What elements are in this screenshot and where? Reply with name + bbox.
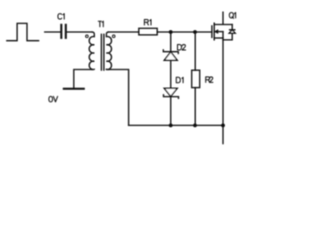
junction dot rail/Q1 source [221, 124, 225, 128]
capacitor C1 [61, 25, 66, 38]
MOSFET Q1 gate bar [211, 26, 213, 38]
junction dot rail/D1 [169, 124, 173, 128]
wire pulse to C1 [45, 31, 61, 33]
MOSFET Q1 channel bar [213, 23, 215, 40]
zener diode D1 [164, 88, 177, 96]
transformer T1 secondary winding [106, 32, 111, 70]
T1 secondary phase dot [112, 35, 115, 38]
Q1 source contact [214, 37, 223, 39]
label C1 [58, 14, 64, 20]
wire secondary bottom to rail [106, 70, 128, 126]
label D1 [176, 77, 183, 83]
label 0V [49, 96, 58, 102]
resistor R1 [139, 28, 157, 35]
junction dot rail/R2 [193, 124, 197, 128]
wire primary bottom to ground [74, 70, 93, 89]
Q1 source/body lead down to rail and below [222, 32, 224, 144]
ground bar 0V [64, 88, 84, 90]
junction dot R1/D2 [169, 30, 173, 34]
Q1 body contact with arrow [218, 31, 223, 33]
label D2 [178, 45, 186, 51]
Q1 drain contact and lead [214, 12, 232, 24]
Q1 body diode [230, 25, 235, 30]
label R1 [144, 20, 151, 26]
junction dot gate/R2 [193, 30, 197, 34]
transformer T1 primary winding [89, 32, 94, 70]
wire D1 to rail [170, 97, 172, 126]
label R2 [206, 77, 213, 83]
wire R2 to rail [194, 88, 196, 126]
transformer T1 core [101, 34, 104, 70]
wire junction to D2 [170, 32, 172, 52]
label T1 [98, 21, 103, 27]
bottom rail [129, 124, 223, 126]
wire gate junction to R2 [194, 32, 196, 70]
wire secondary top to R1 [108, 31, 138, 33]
label Q1 [229, 13, 235, 19]
zener diode D2 [163, 50, 178, 54]
resistor R2 [192, 70, 200, 87]
pulse input waveform icon [7, 23, 39, 40]
wire D2 to D1 [170, 60, 172, 88]
wire C1 to T1 primary [67, 31, 92, 33]
wire R1 to gate with junctions [157, 31, 212, 33]
T1 primary phase dot [86, 35, 89, 38]
